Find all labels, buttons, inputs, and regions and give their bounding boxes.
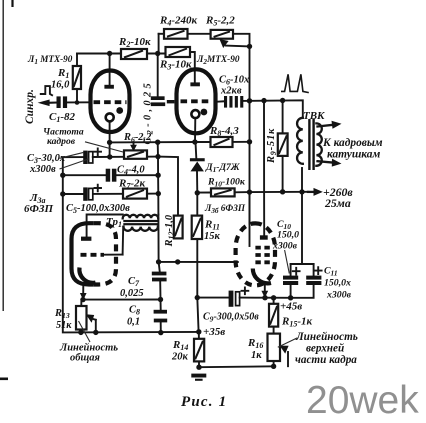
transformer TVK primary winding (297, 118, 303, 164)
capacitor C1 (57, 96, 68, 108)
potentiometer R6 (124, 150, 147, 158)
wire: C4 row (63, 174, 106, 176)
resistor R1 (73, 66, 81, 89)
svg-text:х300в: х300в (326, 290, 352, 301)
junction C9 tap (195, 295, 200, 300)
tube L2 grid (dashed) (181, 99, 213, 103)
arrowhead R6 wiper (130, 145, 137, 152)
wire: C4 to vertical (116, 174, 158, 176)
svg-text:20wek: 20wek (306, 379, 419, 422)
tube L2 gas dot (201, 109, 208, 116)
svg-text:25ма: 25ма (324, 196, 351, 210)
junction R9 top (280, 98, 285, 103)
wire: L3b screen lead into tube (249, 192, 251, 246)
junction grid row left (156, 259, 161, 264)
junction L3b cathode (262, 295, 267, 300)
wire: Tr1 bottom winding left end down to grid wire (122, 227, 125, 255)
page edge tick top (11, 0, 13, 7)
label pointer: C3 line1 (60, 152, 85, 158)
wire: C6 right to TVK corner (242, 100, 303, 118)
wire: R13 top lead (80, 300, 82, 306)
svg-text:катушкам: катушкам (327, 149, 380, 161)
tube L3b grids (3 dashed rows) (255, 248, 270, 263)
wire: R15 top lead (273, 298, 275, 304)
diode D1 (190, 158, 205, 171)
svg-text:R3-10к: R3-10к (159, 59, 192, 72)
resistor R11 (192, 216, 202, 239)
svg-text:Л3б 6ФЗП: Л3б 6ФЗП (204, 203, 246, 215)
svg-text:15к: 15к (204, 231, 221, 242)
wire: R13 wiper riser (95, 320, 97, 333)
transformer TVK core (308, 119, 315, 170)
wire: bottom right row to R16 (199, 365, 274, 368)
svg-text:R2-10к: R2-10к (118, 36, 151, 49)
svg-text:х300в: х300в (29, 164, 56, 175)
wire: grid row to L3b (y262) (159, 261, 238, 263)
resistor R9 (278, 133, 288, 156)
wire: R13 wiper stub (92, 319, 96, 320)
wire: C10 bottom stub (290, 285, 292, 298)
svg-text:Тр1: Тр1 (106, 216, 122, 229)
page edge tick bottom-left (0, 378, 8, 381)
junction R1 grid tee (75, 100, 80, 105)
wire: L3a cathode lead (82, 285, 84, 295)
resistor R14 (194, 339, 204, 362)
junction anode line TVK row (261, 98, 266, 103)
wire: R4 right to R5 left (188, 33, 211, 35)
svg-text:R12-1,0: R12-1,0 (164, 214, 176, 247)
wire: R1 top lead (76, 54, 78, 67)
svg-text:R7-2к: R7-2к (118, 178, 146, 191)
capacitor C2 (151, 96, 175, 106)
capacitor C9 (electrolytic) (229, 287, 249, 306)
svg-text:Л1 МТХ-90: Л1 МТХ-90 (27, 54, 73, 66)
svg-text:С4-4,0: С4-4,0 (117, 165, 145, 177)
wire: R15 to R16 (273, 327, 275, 334)
wire: C11 bottom stub and corner (291, 285, 314, 298)
arrowhead R5 wiper (219, 39, 228, 48)
sync pulse waveform (40, 86, 53, 96)
wire: L1 cathode lead down (109, 122, 111, 157)
arrow to frame coils top (318, 121, 342, 129)
svg-text:общая: общая (70, 353, 100, 364)
resistor R2 (121, 49, 147, 59)
wire: +260V row right of bus (250, 191, 309, 193)
transformer Tr1 core (123, 220, 158, 225)
junction R13 wiper (93, 330, 98, 335)
svg-text:150,0: 150,0 (277, 230, 299, 241)
svg-text:С8: С8 (129, 305, 140, 317)
svg-text:С7: С7 (128, 276, 140, 288)
wire: diode anode to R10 row (196, 171, 198, 193)
junction R12 bottom (175, 259, 180, 264)
svg-text:150,0х: 150,0х (324, 278, 351, 289)
arrowhead L3a cathode (80, 293, 87, 300)
junction R13 bottom (78, 330, 83, 335)
wire: left bus x62.8 with bottom row (63, 157, 199, 332)
resistor R8 (211, 137, 233, 147)
wire: R14 bottom lead (198, 361, 200, 367)
arrowhead R16 wiper (280, 346, 289, 354)
junction C8 bottom (158, 330, 163, 335)
svg-text:кадров: кадров (47, 136, 76, 147)
svg-text:верхней: верхней (306, 343, 344, 355)
junction bus C4 row (60, 173, 65, 178)
wire: C5 row (63, 193, 84, 195)
junction R9 bottom (280, 189, 285, 194)
arrowhead +260V (314, 188, 323, 196)
svg-text:С9-300,0х50в: С9-300,0х50в (203, 312, 259, 324)
svg-text:К кадровым: К кадровым (322, 137, 383, 149)
svg-text:С1-82: С1-82 (49, 111, 76, 124)
output spikes waveform (281, 74, 309, 92)
tube L3a cathode arc (79, 268, 95, 283)
junction diode R10 row (195, 190, 200, 195)
svg-text:R13: R13 (54, 308, 70, 320)
wire: R2 right to R3 left junction row (147, 53, 166, 55)
capacitor C3 (electrolytic) (83, 148, 101, 164)
wire: main vertical x158 (157, 142, 160, 214)
capacitor C5 (electrolytic) (83, 185, 101, 201)
wire: C7 to C8 segment (159, 281, 162, 309)
potentiometer R13 (76, 306, 87, 330)
junction C10 bottom (288, 295, 293, 300)
tube L3a envelope dashed half (94, 223, 116, 284)
svg-text:х300в: х300в (272, 241, 298, 252)
capacitor C4 (106, 169, 117, 182)
arrowhead L3b cathode (261, 291, 268, 298)
resistor R7 (123, 189, 147, 199)
wire: R5 right corner down to bus (233, 34, 250, 47)
wire: main vertical x158 lower (windings to C7) (158, 215, 159, 273)
svg-text:R11: R11 (204, 219, 220, 232)
svg-text:R5-2,2: R5-2,2 (205, 15, 235, 28)
wire: R13 bottom lead (80, 330, 82, 333)
wire: C8 bottom (160, 323, 162, 333)
svg-text:части кадра: части кадра (295, 354, 357, 366)
svg-text:х2кв: х2кв (220, 86, 242, 97)
capacitor C8 (154, 310, 168, 323)
tube L3a envelope solid half (72, 223, 94, 284)
capacitor C6 (double HV) (224, 96, 243, 108)
svg-text:1к: 1к (251, 350, 262, 361)
tube L3b cathode arc (253, 269, 271, 284)
wire: R9 bottom lead (282, 156, 284, 192)
tube L2 cathode (191, 110, 199, 118)
arrow to frame coils bottom (318, 159, 342, 167)
potentiometer R16 (268, 334, 281, 361)
junction L3a cathode (80, 297, 85, 302)
capacitor C11 (electrolytic) (306, 267, 321, 285)
resistor R12 (174, 216, 183, 239)
wire: R11 top lead (196, 193, 198, 216)
wire: C1 to tube L1 grid (67, 101, 91, 103)
transformer Tr1 primary winding (123, 215, 159, 219)
wire: C3 row to R6 left (93, 156, 124, 158)
wire: C5 to R7 (93, 193, 123, 195)
wire: L2 anode lead from R3 (190, 52, 195, 82)
input sync arrow (38, 100, 57, 107)
svg-text:+35в: +35в (203, 326, 225, 338)
wire: R12 branch from R6-right junction (158, 157, 178, 216)
svg-text:0,025: 0,025 (120, 288, 144, 299)
junction bus C5 row (60, 191, 65, 196)
svg-text:Линейность: Линейность (295, 331, 358, 343)
tube L3b envelope (dashed) (236, 223, 275, 285)
label pointer: C10 (285, 250, 290, 274)
svg-text:R16: R16 (247, 337, 263, 350)
junction L1 anode row (107, 51, 112, 56)
capacitor C10 (electrolytic) (283, 268, 300, 285)
wire: R4 row left stub (159, 33, 164, 35)
tube L1 gas dot (116, 107, 123, 114)
arrowhead R13 wiper (86, 314, 94, 323)
junction R16 bottom (271, 364, 276, 369)
tube L1 envelope (91, 71, 130, 133)
label pointer: R16 lineynost (278, 338, 298, 348)
junction R7 right (156, 191, 161, 196)
wire: L3b cathode arrow lead (264, 285, 266, 293)
tube L2 envelope (177, 69, 216, 133)
wire: R16 bottom lead (273, 361, 275, 366)
wire: R11 bottom long lead to +35V node (197, 239, 198, 332)
svg-text:R1: R1 (57, 67, 69, 80)
wire: L3a grid wire (104, 254, 123, 256)
junction C3 R6 left (107, 154, 112, 159)
svg-text:ТВК: ТВК (303, 110, 325, 122)
tube L1 grid (dashed) (94, 100, 127, 104)
svg-text:20к: 20к (171, 352, 189, 363)
junction C7 C8 node (158, 297, 163, 302)
svg-text:16,0: 16,0 (51, 80, 70, 91)
potentiometer R5 (211, 30, 233, 39)
transformer Tr1 secondary winding (124, 227, 158, 231)
junction L2 cathode diode (192, 139, 197, 144)
wire: L3b anode line (TVK row down into tube) (263, 101, 265, 236)
junction C4 right (155, 173, 160, 178)
svg-text:0,1: 0,1 (127, 317, 140, 328)
svg-text:6ФЗП: 6ФЗП (24, 203, 53, 215)
junction ground node (196, 365, 201, 370)
wire R6 wiper stub (133, 142, 135, 146)
wire: C6 row from tube L2 to TVK (216, 100, 225, 103)
tube L1 anode plate (104, 85, 114, 89)
page edge line left (2, 0, 4, 311)
svg-text:R15-1к: R15-1к (281, 316, 313, 329)
svg-text:С11: С11 (324, 266, 338, 278)
tube L3b anode plate (260, 235, 268, 239)
svg-text:+45в: +45в (280, 301, 302, 313)
wire: C11 top stub (313, 264, 315, 276)
wire: cap tie bar top (291, 263, 314, 265)
arrow: +260V (308, 191, 315, 193)
junction R5 wiper bus (247, 44, 252, 49)
label pointer: chastota to R6 (85, 142, 123, 152)
svg-text:51к: 51к (56, 320, 72, 331)
junction C2 top (155, 51, 160, 56)
svg-text:R4-240к: R4-240к (159, 15, 198, 28)
wire: cathode row y299.5 (83, 299, 161, 301)
tube L3a grid (dashed) (81, 253, 105, 257)
wire: R5 wiper tap (226, 45, 250, 48)
junction bus C6 row (247, 98, 252, 103)
wire: right bus x249.5 (249, 46, 251, 223)
junction +35V node (196, 329, 201, 334)
resistor R15 (269, 304, 278, 327)
wire: anode row of L1 (y53.5) (77, 53, 121, 55)
wire: diode branch down from cathode row (195, 142, 198, 158)
wire: C9 left lead (197, 297, 228, 299)
junction R6 right R12 branch (155, 154, 160, 159)
junction TVK bottom 260 row (299, 189, 304, 194)
svg-text:R10-100к: R10-100к (207, 177, 246, 189)
svg-text:R8-4,3: R8-4,3 (209, 125, 239, 138)
wire: R7 right to vertical (147, 193, 158, 195)
svg-text:R9-51к: R9-51к (266, 128, 278, 164)
svg-text:С5-100,0х300в: С5-100,0х300в (66, 203, 130, 215)
wire: C2 top lead (157, 54, 159, 97)
wire: cathode row y142 (110, 141, 211, 143)
resistor R10 (211, 188, 235, 196)
junction R15 top (271, 295, 276, 300)
wire: TVK primary bottom riser to caps (301, 168, 303, 264)
svg-text:Синхр.: Синхр. (24, 89, 36, 124)
transformer TVK secondary winding (316, 123, 321, 165)
wire: grid row L1 (48, 102, 57, 104)
label pointer: C3 line2 (60, 159, 90, 169)
wire: R1 bottom lead (76, 89, 78, 103)
wire: C9 right to cathode node (240, 297, 291, 299)
wire: R10 right to bus (235, 191, 250, 193)
junction C2 bottom row (155, 140, 160, 145)
wire: C3 row left stub (63, 156, 84, 158)
wire: junction vertical R2/R3/R4 (158, 34, 160, 54)
wire: R8 right to bus (233, 141, 250, 143)
svg-text:С2-0,025: С2-0,025 (143, 80, 155, 145)
junction R8 bus (247, 139, 252, 144)
resistor R4 (164, 29, 188, 39)
tube L1 cathode (106, 113, 114, 121)
wire: L3a anode to Tr1 top winding (87, 215, 123, 237)
svg-text:Л2МТХ-90: Л2МТХ-90 (196, 55, 240, 66)
junction L1 cathode row (107, 140, 112, 145)
capacitor C7 (152, 272, 167, 282)
wire: R6 right to vertical line (147, 156, 158, 158)
svg-text:Рис. 1: Рис. 1 (181, 394, 227, 410)
wire: C10 top stub (290, 264, 292, 276)
wire: +260V row (197, 192, 211, 194)
wire: L1 anode lead (109, 54, 111, 86)
tube L3a anode plate (81, 237, 91, 241)
svg-text:R14: R14 (172, 339, 188, 352)
resistor R3 (166, 47, 191, 57)
svg-text:Д1-Д7Ж: Д1-Д7Ж (205, 162, 241, 174)
wire: R14 top lead (198, 332, 200, 339)
junction bus 260 row (247, 189, 252, 194)
ground symbol (191, 374, 206, 378)
tube L2 anode plate (190, 82, 200, 86)
wire: R9 top lead (282, 101, 284, 134)
wire: L2 cathode lead down (194, 118, 196, 142)
label pointer: R13 lineynost (79, 321, 91, 342)
wire: R16 wiper riser (287, 352, 289, 366)
